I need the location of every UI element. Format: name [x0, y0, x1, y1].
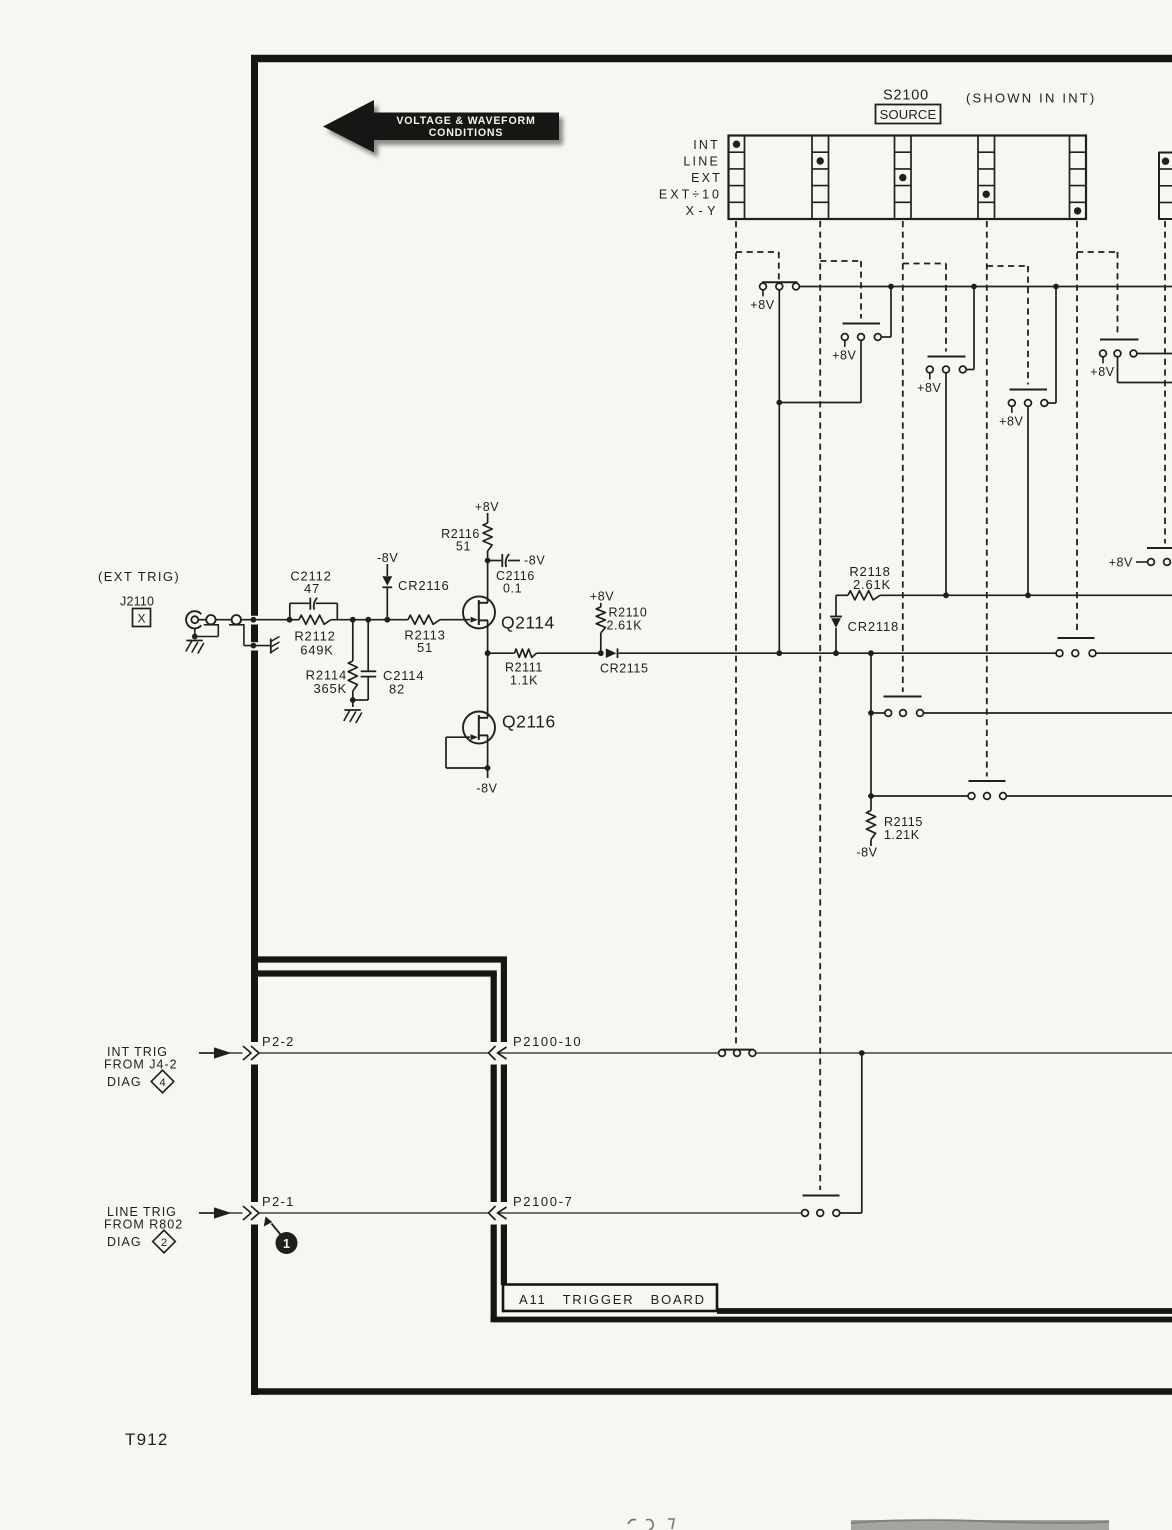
svg-text:VOLTAGE & WAVEFORM: VOLTAGE & WAVEFORM	[396, 115, 535, 127]
svg-text:+8V: +8V	[1090, 365, 1114, 379]
svg-text:+8V: +8V	[750, 298, 774, 312]
svg-text:R2115: R2115	[884, 815, 923, 829]
svg-text:J2110: J2110	[120, 595, 154, 609]
svg-text:EXT÷10: EXT÷10	[659, 188, 722, 202]
svg-text:51: 51	[417, 640, 433, 655]
svg-text:FROM R802: FROM R802	[104, 1218, 183, 1232]
svg-text:-8V: -8V	[476, 782, 497, 796]
svg-text:A11 TRIGGER BOARD: A11 TRIGGER BOARD	[519, 1292, 706, 1307]
svg-text:+8V: +8V	[832, 348, 856, 362]
svg-text:-8V: -8V	[856, 846, 877, 860]
svg-text:Q2116: Q2116	[502, 712, 556, 732]
svg-text:P2-1: P2-1	[262, 1194, 295, 1209]
svg-text:LINE: LINE	[683, 155, 720, 169]
svg-text:0.1: 0.1	[503, 582, 522, 596]
svg-text:2.61K: 2.61K	[853, 577, 891, 592]
svg-text:CR2116: CR2116	[398, 578, 450, 593]
svg-text:P2100-10: P2100-10	[513, 1034, 582, 1049]
svg-text:SOURCE: SOURCE	[880, 107, 937, 122]
svg-text:47: 47	[304, 581, 320, 596]
svg-text:EXT: EXT	[691, 171, 722, 185]
svg-text:365K: 365K	[313, 681, 347, 696]
svg-text:R2112: R2112	[294, 629, 335, 644]
svg-text:+8V: +8V	[475, 500, 499, 514]
svg-text:R2111: R2111	[505, 661, 543, 675]
svg-text:82: 82	[389, 682, 405, 697]
svg-text:1.21K: 1.21K	[884, 828, 920, 842]
svg-text:-8V: -8V	[377, 551, 398, 565]
svg-text:(SHOWN IN INT): (SHOWN IN INT)	[966, 91, 1096, 106]
svg-text:P2-2: P2-2	[262, 1034, 295, 1049]
svg-text:CR2118: CR2118	[848, 619, 900, 634]
svg-text:DIAG: DIAG	[107, 1235, 142, 1249]
svg-text:4: 4	[159, 1077, 165, 1089]
svg-text:T912: T912	[125, 1430, 169, 1449]
svg-text:X-Y: X-Y	[686, 204, 720, 218]
svg-text:-8V: -8V	[524, 554, 545, 568]
svg-text:P2100-7: P2100-7	[513, 1194, 573, 1209]
svg-text:+8V: +8V	[590, 590, 614, 604]
svg-text:1: 1	[283, 1237, 290, 1251]
svg-text:2.61K: 2.61K	[607, 619, 643, 633]
svg-text:2: 2	[161, 1237, 167, 1249]
svg-text:CR2115: CR2115	[600, 662, 649, 676]
svg-text:X: X	[137, 612, 145, 626]
svg-text:+8V: +8V	[1109, 556, 1133, 570]
svg-text:51: 51	[456, 540, 471, 554]
svg-text:R2110: R2110	[609, 606, 648, 620]
svg-text:649K: 649K	[300, 643, 334, 658]
svg-text:Q2114: Q2114	[501, 613, 555, 633]
svg-text:(EXT TRIG): (EXT TRIG)	[98, 569, 180, 584]
svg-text:1.1K: 1.1K	[510, 674, 538, 688]
svg-text:INT: INT	[693, 138, 720, 152]
svg-text:DIAG: DIAG	[107, 1075, 142, 1089]
svg-text:+8V: +8V	[999, 414, 1023, 428]
svg-text:FROM J4-2: FROM J4-2	[104, 1058, 178, 1072]
svg-text:CONDITIONS: CONDITIONS	[429, 127, 504, 139]
svg-text:S2100: S2100	[883, 88, 929, 104]
svg-text:+8V: +8V	[917, 381, 941, 395]
